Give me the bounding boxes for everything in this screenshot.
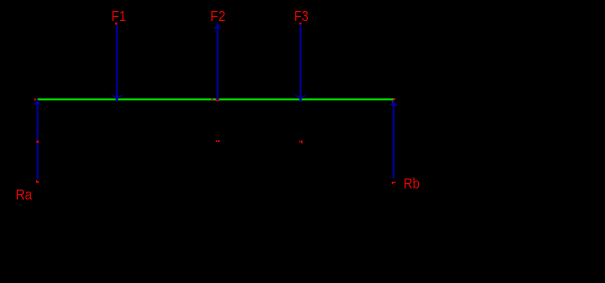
node: left beam end marker <box>34 99 36 101</box>
node: midspan marker pair below F3 <box>299 140 302 143</box>
svg-text:F3: F3 <box>294 8 308 25</box>
node: small marker near Rb arrow tip <box>392 101 393 102</box>
svg-text:F2: F2 <box>210 8 225 25</box>
node: right beam end marker <box>393 98 395 100</box>
reaction Ra (upward arrow at left support) <box>34 100 41 180</box>
force F3 (downward arrow onto beam) <box>295 25 306 102</box>
node: F1 start point marker <box>115 23 117 25</box>
node: Rb end point marker <box>392 182 396 185</box>
force F1 (downward arrow onto beam) <box>111 25 122 101</box>
node: small marker on beam near F2 <box>211 99 213 101</box>
svg-text:Ra: Ra <box>16 187 33 204</box>
svg-text:Rb: Rb <box>404 176 420 193</box>
node: midspan marker pair below F2 <box>216 140 220 142</box>
force F2 (upward arrow away from beam) <box>214 23 221 100</box>
node: F3 start point marker <box>299 23 301 25</box>
node: F2 base point marker on beam <box>216 99 220 102</box>
reaction Rb (upward arrow at right support) <box>390 100 397 178</box>
svg-text:F1: F1 <box>111 8 126 25</box>
beam (green horizontal member) <box>37 98 393 100</box>
node: Ra midpoint marker <box>36 141 38 143</box>
node: Ra end point marker <box>36 180 39 183</box>
